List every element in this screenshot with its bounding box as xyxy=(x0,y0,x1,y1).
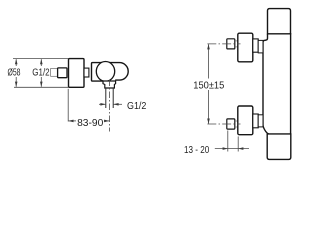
outlet nut (trapezoid) xyxy=(103,81,116,88)
dimension 83-90 line xyxy=(68,120,76,122)
svg-text:G1/2: G1/2 xyxy=(32,66,49,78)
valve head circle xyxy=(96,62,114,82)
dimension 150±15 line + arrows xyxy=(208,44,210,78)
body left contour with shoulders xyxy=(263,34,269,134)
top valve neck xyxy=(253,39,258,52)
svg-text:G1/2: G1/2 xyxy=(127,100,147,112)
bottom valve flare to body xyxy=(258,115,263,127)
svg-text:150±15: 150±15 xyxy=(193,79,224,91)
extension line top (escutcheon top) xyxy=(13,58,68,60)
dimension Ø58 line + arrows xyxy=(15,59,17,66)
top valve union nut xyxy=(227,39,235,49)
svg-text:13 - 20: 13 - 20 xyxy=(184,144,209,156)
connector piece xyxy=(84,68,89,77)
bottom valve neck xyxy=(253,114,258,128)
top valve thread lines xyxy=(235,40,238,42)
top cap xyxy=(268,9,291,34)
dimension G1/2 (wall) line + arrows xyxy=(40,59,42,66)
bottom valve centerline xyxy=(207,123,240,125)
union nut (wall side) xyxy=(58,68,67,78)
outlet pipe left line xyxy=(105,88,107,108)
extension line bottom (escutcheon bottom) xyxy=(14,86,68,88)
bottom valve body block xyxy=(238,106,253,135)
top valve flare to body xyxy=(258,40,263,53)
wall pipe stub xyxy=(51,69,58,77)
body right edge xyxy=(290,33,292,135)
outlet centerline xyxy=(109,80,111,132)
extension line from block face (13-20) xyxy=(237,136,239,151)
outlet pipe right line xyxy=(112,88,114,108)
dimension G1/2 outlet arrows xyxy=(99,103,105,105)
bottom valve union nut xyxy=(227,119,235,129)
mixer body (capsule) xyxy=(92,63,129,82)
top valve body block xyxy=(238,33,253,62)
svg-text:Ø58: Ø58 xyxy=(8,66,21,78)
extension line left (escutcheon face, for 83-90) xyxy=(67,89,69,122)
bottom cap xyxy=(267,134,291,160)
bottom valve thread lines xyxy=(235,120,238,122)
extension line from nut face (13-20) xyxy=(227,131,229,152)
escutcheon flange (Ø58) xyxy=(69,59,85,88)
svg-text:83-90: 83-90 xyxy=(77,117,103,129)
top valve centerline xyxy=(207,43,240,45)
dimension 13-20 line + arrows xyxy=(215,148,249,150)
